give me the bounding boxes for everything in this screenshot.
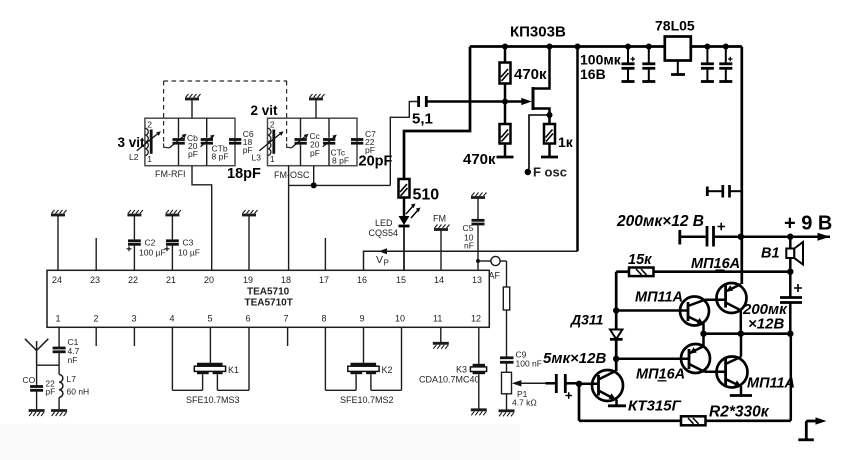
capacitor (supply RF bypass) <box>706 187 709 197</box>
wire osc to 5,1pF cap <box>390 102 418 186</box>
svg-text:КТ315Г: КТ315Г <box>628 398 682 415</box>
svg-text:60 nH: 60 nH <box>67 387 90 397</box>
wire FM-RFI to pin 20 <box>192 166 212 271</box>
svg-text:7: 7 <box>284 314 289 324</box>
node bias upper <box>613 307 619 313</box>
capacitor C9 100nF <box>500 356 514 359</box>
svg-text:510: 510 <box>413 187 440 204</box>
wire rail down to LED feed <box>404 47 470 180</box>
svg-text:L7: L7 <box>67 374 77 384</box>
svg-text:6: 6 <box>246 314 251 324</box>
potentiometer P1 4.7k <box>502 372 512 394</box>
svg-text:L2: L2 <box>129 152 139 162</box>
svg-text:R2*330к: R2*330к <box>709 404 770 421</box>
svg-text:20pF: 20pF <box>359 154 393 170</box>
wire AF down <box>506 261 508 287</box>
svg-text:10: 10 <box>395 314 405 324</box>
ceramic filter K2 SFE10.7MS2 <box>324 327 326 390</box>
svg-text:19: 19 <box>243 275 253 285</box>
capacitor CO 22pF <box>36 365 38 385</box>
svg-text:K2: K2 <box>382 365 393 375</box>
capacitor (output ceramic) <box>706 47 708 63</box>
transistor Q2 КТ315Г <box>592 370 623 401</box>
capacitor (input ceramic) <box>648 47 650 63</box>
capacitor 200мк x12В (supply filter) <box>678 230 681 245</box>
node gate junction <box>502 99 508 105</box>
svg-text:V: V <box>376 254 383 266</box>
svg-text:nF: nF <box>464 241 474 251</box>
pin 23 stub <box>95 238 97 270</box>
svg-text:3: 3 <box>132 314 137 324</box>
svg-text:24: 24 <box>52 275 62 285</box>
wire antenna junction <box>37 364 60 366</box>
svg-text:P: P <box>384 259 389 268</box>
svg-text:МП11А: МП11А <box>635 290 683 306</box>
svg-text:8: 8 <box>322 314 327 324</box>
svg-text:CDA10.7MC40: CDA10.7MC40 <box>419 375 480 385</box>
svg-text:17: 17 <box>319 275 329 285</box>
diode Д311 <box>610 330 622 340</box>
capacitor 200мк x12В (output) <box>780 296 802 299</box>
svg-text:9: 9 <box>360 314 365 324</box>
svg-text:8 pF: 8 pF <box>332 156 349 166</box>
ground above FM-RFI <box>191 100 193 118</box>
transistor Q1 КП303В (JFET) <box>521 98 532 105</box>
svg-text:CO: CO <box>23 375 36 385</box>
svg-text:МП11А: МП11А <box>747 376 795 392</box>
FM-RFI tank box <box>145 118 235 166</box>
pin 24 ground <box>57 216 59 270</box>
capacitor C3 10uF on pin 21 <box>171 216 173 240</box>
svg-text:AF: AF <box>489 271 501 281</box>
pin 3 stub <box>133 327 135 346</box>
node bias lower <box>613 356 619 362</box>
svg-text:18pF: 18pF <box>227 166 261 182</box>
ceramic filter K1 SFE10.7MS3 <box>171 327 173 390</box>
resistor 470к (lower) <box>504 102 507 125</box>
LED CQS54 <box>403 198 406 217</box>
svg-text:CQS54: CQS54 <box>369 228 399 238</box>
svg-text:×12В: ×12В <box>748 316 784 333</box>
transistor Q3 МП11А (driver upper) <box>680 297 709 326</box>
resistor 15к (bootstrap bias) <box>616 270 629 273</box>
svg-text:SFE10.7MS2: SFE10.7MS2 <box>340 395 394 405</box>
output node rail <box>704 332 791 335</box>
svg-text:2: 2 <box>270 120 275 130</box>
svg-text:11: 11 <box>433 314 442 324</box>
trimmer CTb 8pF <box>206 118 208 138</box>
FM-OSC tank box <box>268 118 358 166</box>
antenna W1 <box>25 339 37 351</box>
resistor (AF series) <box>503 287 509 310</box>
capacitor C5 10nF on pin 13 <box>477 199 479 220</box>
svg-text:2: 2 <box>147 120 152 130</box>
svg-text:16В: 16В <box>580 66 606 82</box>
svg-text:K1: K1 <box>228 365 239 375</box>
svg-text:C3: C3 <box>183 238 194 248</box>
svg-text:1к: 1к <box>558 134 574 150</box>
pin 7 stub <box>287 327 289 346</box>
resistor 510 <box>399 179 410 198</box>
capacitor C7 22pF <box>351 138 363 141</box>
svg-text:K3: K3 <box>456 365 467 375</box>
svg-text:Д311: Д311 <box>570 312 604 328</box>
svg-text:L3: L3 <box>252 153 262 163</box>
capacitor C1 4.7nF on pin 1 <box>58 327 60 347</box>
feedback resistor R2* 330к <box>578 384 581 421</box>
svg-text:5мк×12В: 5мк×12В <box>543 350 606 367</box>
inductor L7 60nH <box>58 365 60 374</box>
svg-text:2: 2 <box>94 314 99 324</box>
capacitor C6 18pF <box>229 138 241 141</box>
bias chain vertical <box>615 272 618 371</box>
wire FM-OSC to pin 18 <box>288 166 290 271</box>
node AF tap <box>476 259 480 263</box>
svg-text:FM: FM <box>433 214 446 224</box>
svg-text:pF: pF <box>188 149 198 159</box>
svg-text:100 µF: 100 µF <box>139 248 166 258</box>
trimmer CTc 8pF <box>328 118 330 138</box>
svg-text:470к: 470к <box>514 66 547 83</box>
svg-text:8 pF: 8 pF <box>212 152 229 162</box>
svg-text:TEA5710: TEA5710 <box>247 287 290 298</box>
svg-text:21: 21 <box>166 275 176 285</box>
svg-text:470к: 470к <box>463 151 496 168</box>
coil L2 (variable) <box>145 128 148 155</box>
resistor 470к (upper) <box>504 47 507 63</box>
wire osc output tap <box>313 166 315 186</box>
transistor Q4 МП16А (output upper) <box>717 283 747 313</box>
dashed gang-tuning link <box>164 81 287 144</box>
svg-text:5,1: 5,1 <box>412 111 433 128</box>
svg-text:SFE10.7MS3: SFE10.7MS3 <box>186 395 240 405</box>
svg-text:FM-RFI: FM-RFI <box>155 169 186 179</box>
svg-text:КП303В: КП303В <box>510 24 566 41</box>
svg-text:nF: nF <box>68 355 78 365</box>
pin 17 stub <box>324 238 326 270</box>
svg-text:TEA5710T: TEA5710T <box>245 298 293 309</box>
svg-text:18: 18 <box>281 275 291 285</box>
wire cap to gate <box>426 100 522 103</box>
svg-text:13: 13 <box>472 275 482 285</box>
svg-text:15к: 15к <box>628 252 652 268</box>
svg-text:4.7 kΩ: 4.7 kΩ <box>512 398 537 408</box>
output terminal symbol <box>805 421 808 439</box>
pin 11 ground <box>440 327 442 342</box>
svg-text:10 µF: 10 µF <box>178 248 200 258</box>
ceramic discriminator K3 CDA10.7MC40 <box>478 327 480 364</box>
wiper arrow of P1 <box>521 382 546 384</box>
svg-text:pF: pF <box>45 387 55 397</box>
svg-text:МП16А: МП16А <box>636 367 685 383</box>
svg-text:1: 1 <box>147 154 152 164</box>
speaker B1 <box>789 237 792 249</box>
capacitor 100мк (input electrolytic) <box>627 47 629 63</box>
IC U1 TEA5710 <box>47 270 489 327</box>
svg-text:5: 5 <box>208 314 213 324</box>
capacitor 5,1 <box>417 96 420 107</box>
svg-text:4: 4 <box>170 314 175 324</box>
svg-text:16: 16 <box>357 275 367 285</box>
wire 5V down to Vp <box>576 47 579 252</box>
supply rail top <box>470 45 742 48</box>
svg-text:1: 1 <box>270 154 275 164</box>
svg-text:+ 9 В: + 9 В <box>784 213 832 235</box>
svg-text:200мк×12 В: 200мк×12 В <box>616 213 704 230</box>
svg-text:LED: LED <box>375 218 393 228</box>
capacitor (output electrolytic) <box>725 47 727 63</box>
svg-text:FM-OSC: FM-OSC <box>274 170 310 180</box>
resistor 1к <box>544 124 555 144</box>
svg-text:12: 12 <box>471 314 481 324</box>
svg-text:C2: C2 <box>145 238 156 248</box>
svg-text:23: 23 <box>90 275 100 285</box>
svg-text:F osc: F osc <box>533 165 567 180</box>
variable capacitor Cb 20pF <box>178 118 180 138</box>
junction osc tap <box>311 182 317 188</box>
svg-text:78L05: 78L05 <box>655 18 695 34</box>
capacitor C2 100uF on pin 22 <box>133 216 135 240</box>
svg-text:100 nF: 100 nF <box>516 359 542 369</box>
svg-text:C5: C5 <box>463 223 474 233</box>
svg-text:1: 1 <box>56 314 61 324</box>
svg-text:В1: В1 <box>761 246 780 262</box>
coil L3 (variable) <box>268 128 271 155</box>
svg-text:14: 14 <box>434 275 444 285</box>
transistor Q5 МП16А (driver lower) <box>681 344 710 373</box>
transistor Q6 МП11А (output lower) <box>717 357 748 388</box>
pin 19 ground <box>248 216 250 270</box>
regulator U2 78L05 <box>665 37 691 61</box>
variable capacitor Cc 20pF <box>300 118 302 138</box>
ground above FM-OSC <box>315 100 317 118</box>
pin 2 stub <box>95 327 97 346</box>
svg-text:pF: pF <box>310 148 320 158</box>
node F osc <box>529 115 550 169</box>
svg-text:15: 15 <box>396 275 406 285</box>
Vp supply line to pin 16 <box>364 251 578 270</box>
svg-text:20: 20 <box>204 275 214 285</box>
capacitor 5мк x12В <box>546 382 556 385</box>
svg-text:3 vit: 3 vit <box>118 135 146 150</box>
svg-text:2 vit: 2 vit <box>251 103 279 118</box>
FM ground on pin 14 <box>440 231 442 271</box>
svg-text:22: 22 <box>128 275 138 285</box>
wire +9V feed down <box>740 47 743 285</box>
